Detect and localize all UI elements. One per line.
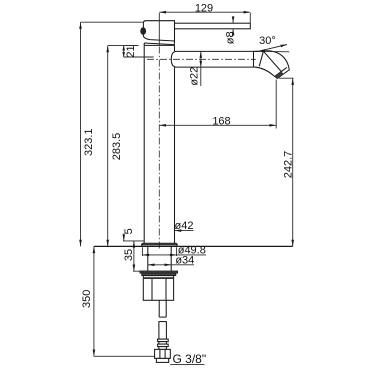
label G 3/8": [170, 352, 206, 366]
dimension ø34: [148, 254, 194, 266]
spout tip: [254, 51, 290, 79]
svg-text:ø8: ø8: [224, 31, 236, 44]
spout centerline: [147, 58, 256, 60]
dimension ø8: [224, 16, 236, 44]
30 degree angle annotation: [258, 35, 289, 52]
spout cap at body: [171, 51, 176, 67]
svg-text:ø34: ø34: [175, 254, 194, 266]
hose upper section: [159, 322, 167, 340]
dimension 242.7: [279, 78, 295, 246]
mounting flange: [142, 243, 178, 246]
svg-text:ø22: ø22: [189, 67, 201, 86]
handle rod: [175, 23, 251, 29]
dimension 129: [159, 2, 250, 45]
hose collar band A: [158, 339, 169, 342]
mounting nut: [143, 276, 173, 301]
svg-text:21: 21: [125, 45, 137, 57]
handle base bevel: [144, 41, 174, 45]
hose collar band B: [158, 344, 169, 347]
threaded rod upper: [159, 300, 166, 317]
dimension ø49.8: [142, 245, 206, 257]
dimension 21: [122, 45, 153, 57]
svg-text:283.5: 283.5: [111, 133, 123, 161]
svg-text:30°: 30°: [259, 35, 276, 47]
faucet body column: [144, 45, 174, 243]
hose mid section 2: [159, 347, 167, 350]
svg-text:242.7: 242.7: [283, 151, 295, 179]
dimension 35: [123, 241, 148, 271]
svg-text:350: 350: [81, 290, 93, 308]
dimension ø22: [189, 51, 203, 86]
mounting washer: [140, 271, 178, 276]
hose end collar: [156, 358, 168, 362]
handle lever body: [143, 21, 174, 41]
dimension 323.1: [79, 22, 143, 246]
body centerline: [158, 47, 160, 251]
dimension 283.5: [106, 46, 138, 247]
dimension 350: [81, 246, 155, 356]
svg-text:323.1: 323.1: [83, 128, 95, 156]
spout tube: [176, 51, 258, 67]
dimension 168: [159, 80, 276, 129]
svg-text:129: 129: [195, 2, 213, 14]
svg-text:168: 168: [212, 115, 230, 127]
svg-text:ø42: ø42: [175, 220, 194, 232]
hose mid section: [159, 342, 167, 345]
svg-text:35: 35: [123, 249, 135, 261]
svg-text:5: 5: [123, 228, 135, 234]
deck line: [94, 245, 293, 247]
svg-text:G 3/8": G 3/8": [173, 352, 207, 366]
threaded shank ø34: [148, 246, 171, 270]
hose hex nut: [155, 349, 171, 358]
dimension 5: [123, 228, 145, 241]
dimension ø42 leader: [175, 220, 194, 232]
handle set-screw pin: [140, 27, 146, 35]
